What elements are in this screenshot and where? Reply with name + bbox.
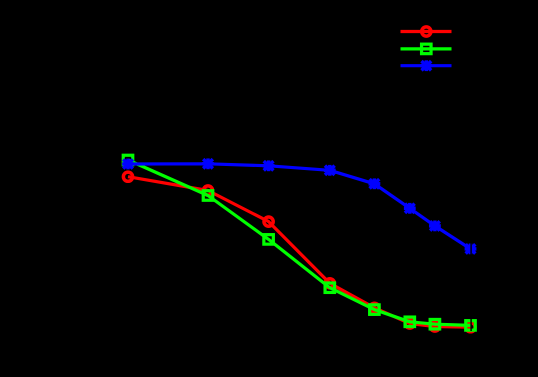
blue marker 5 [369,178,381,189]
green marker 4 [325,283,335,293]
legend red marker [422,27,431,36]
green series line [128,160,471,325]
green marker 6 [405,317,415,327]
red marker 2 [203,186,212,195]
green marker 8 [466,321,476,331]
legend green sample line [401,47,452,50]
green marker 1 [123,155,133,165]
blue marker 1 [122,159,134,170]
blue marker 4 [324,165,336,176]
blue marker 2 [202,158,214,169]
red marker 5 [370,303,379,312]
legend green marker [422,44,432,54]
legend blue marker [420,60,432,71]
red marker 7 [430,322,439,331]
blue marker 3 [263,160,275,171]
green marker 5 [370,305,380,315]
blue marker 7 [429,221,441,232]
blue marker 6 [404,203,416,214]
red marker 1 [123,172,132,181]
blue marker 8 [465,244,477,255]
green marker 2 [203,191,213,201]
red marker 6 [405,319,414,328]
red marker 3 [264,217,273,226]
green marker 3 [264,235,274,245]
axis right edge line [470,31,472,331]
legend red sample line [401,30,452,33]
red marker 4 [325,279,334,288]
blue series line [128,164,471,249]
red series line [128,177,471,328]
green marker 7 [430,319,440,329]
red marker 8 [466,323,475,332]
legend blue sample line [401,64,452,67]
